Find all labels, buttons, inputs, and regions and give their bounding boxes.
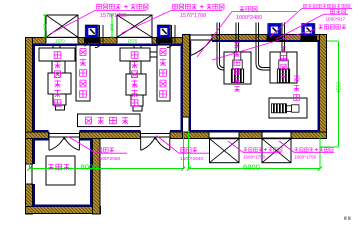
navy interior finish lines [33,41,319,207]
svg-text:8000: 8000 [81,163,98,172]
dim line 8000 [30,168,184,170]
navy: right room east interior [318,41,320,131]
label: 散热排风管 (duct1, vertical) [80,49,87,98]
leader L7 [68,137,127,154]
leader L3 [197,12,297,58]
navy: right room west interior [189,41,191,131]
double door 2 [141,137,170,150]
pump1 symbol [231,52,243,83]
svg-text:1570*1700: 1570*1700 [180,13,206,19]
step tread box (阶梯踏板) [78,114,141,127]
double door 1 [49,137,79,150]
svg-text:1660*1750: 1660*1750 [243,155,266,160]
svg-text:1660*917: 1660*917 [326,16,346,21]
wall: lower room east wall [93,138,101,213]
dim ticks [28,167,323,171]
label L10: 排风百叶+防雨罩 [294,147,333,151]
wall: shared wall [182,35,189,117]
wall: middle wall segment east [170,132,183,139]
navy: right room top interior [212,40,319,42]
label L8: 双开门 [181,147,197,152]
svg-text:1570*1700: 1570*1700 [100,13,126,19]
label L9: 排风百叶+防雨罩 [243,147,282,151]
label: 阶梯踏板 [85,117,128,124]
navy: middle wall upper interior [33,130,182,132]
tiny gray mark bottom right [344,217,351,220]
pump box 2 [270,52,297,83]
svg-text:1500*2550: 1500*2550 [97,156,121,162]
valve V1 [84,25,101,43]
door1 jambs [49,132,80,138]
louver boxB (south exhaust) [262,139,291,163]
svg-text:6800: 6800 [243,163,260,172]
svg-text:1500*2640: 1500*2640 [180,156,204,162]
wall: right building bottom seg3 [291,132,327,139]
navy: lower room west interior [33,139,35,164]
shared wall lower thin part [182,117,189,132]
horizontal pump box [269,98,307,118]
pump group 2 stack [120,48,150,111]
navy: lower room bottom interior [33,205,91,207]
wall: middle wall segment center [80,132,141,139]
label: 散热排风管 (duct2, vertical) [160,49,167,98]
left louver2 bottom bracket [117,42,152,44]
right room pipes [217,23,285,71]
valve V2 [156,25,173,43]
label: 潜水排污泵 (pump1, vertical) [234,42,240,92]
svg-text:1000*2480: 1000*2480 [236,15,262,21]
window gap in west wall [26,164,33,184]
right room top door jambs [190,35,212,41]
leader L6 [212,29,316,60]
label L2: 进风百叶+防雨罩 [172,4,224,9]
label: 深井泵 (pump2, vertical) [281,46,287,79]
wall: left building top, right of louver2 [152,38,183,44]
left louver1 vertical dim [43,15,47,37]
label: 控制柜 [48,164,69,170]
wall: lower room bottom [26,207,101,214]
control cabinet [46,156,75,185]
pump box 1 [224,52,251,84]
valve V4 [301,24,318,42]
leader L10 [279,141,334,152]
pump group 1 stack [39,48,75,110]
leader L9 [228,141,281,152]
left louver2 vertical dim [110,15,114,37]
label: 清水泵 (horizontal pump, vertical) [294,75,300,100]
label L1: 进风百叶+防雨罩 [96,4,148,9]
opening under louver1 [46,38,78,44]
navy: left room top interior [33,44,182,46]
left louver1 bottom bracket [46,42,78,44]
navy: lower room east interior [90,139,92,206]
label L5: 百叶窗 [330,9,345,14]
leader L4 [270,9,352,38]
dim extensions [30,131,321,169]
wall: right building top, left of door [183,35,191,41]
navy: left room west interior [33,44,35,131]
navy: left room east interior (shared wall west side) [180,45,182,131]
label L4: tiny note [303,4,350,8]
label L3: 检修门 [240,6,257,11]
navy: right room bottom interior [190,130,319,132]
wall: middle wall segment west [26,132,49,139]
svg-text:450: 450 [42,23,47,31]
opening under louver2 [117,38,152,44]
svg-text:450: 450 [109,23,114,31]
louver box1 (roof intake) [46,15,78,37]
dim line 6800 [189,168,320,170]
label L7: 双开门 [98,147,114,152]
wall: left building west wall upper [26,38,33,164]
pipes group1 [53,25,103,57]
pipes group2 [134,25,175,57]
wall: right building east wall [320,35,327,139]
leader L5 [276,14,348,39]
duct 1 [76,45,90,101]
wall: left building top, between louvers [78,38,117,44]
thin frame lines across wall openings [26,35,291,184]
wall: right building bottom seg2 [239,132,262,139]
label: 离心式清水泵 (group1, vertical) [54,52,61,106]
wall: left building top, segment left of louver1 [26,38,47,44]
louver box2 (roof intake) [117,15,152,37]
door2 jambs [141,132,171,138]
navy: middle wall lower-room side [33,138,91,140]
louver gaps in bottom wall [209,132,291,138]
label: 离心式清水泵 (group2, vertical) [131,52,138,106]
svg-text:1660*1750: 1660*1750 [294,155,317,160]
svg-text:1570: 1570 [55,39,65,44]
louver boxA (south exhaust) [210,139,240,163]
duct 2 [157,45,170,101]
svg-text:4550: 4550 [337,82,343,93]
svg-text:1570: 1570 [128,39,138,44]
leader L1 [52,11,146,34]
horizontal pump symbol [272,104,300,113]
wall: left building west wall lower (below window gap) [26,184,33,214]
leader L2 [122,11,222,34]
valve V3 [267,24,284,42]
right room top door leaf + arc [191,39,212,55]
label L6: 设备检修门 [319,24,347,29]
leader L8 [157,136,210,154]
right side dim [320,41,338,147]
wall: right building bottom seg1 [183,132,210,139]
wall: right building top, right of door [212,35,327,41]
pump2 symbol [277,52,289,83]
